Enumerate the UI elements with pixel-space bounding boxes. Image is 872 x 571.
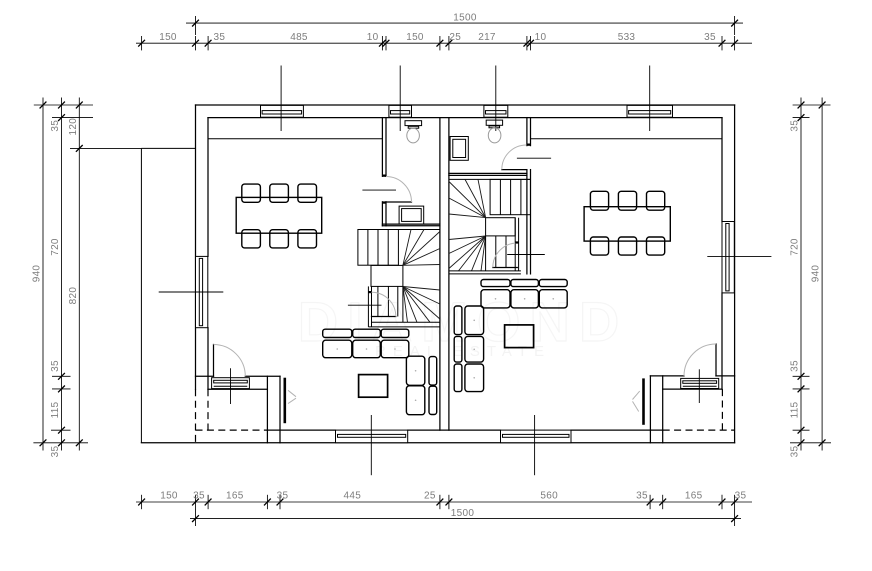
dimension top 1500 [186, 22, 743, 24]
door swing right vestibule [684, 344, 716, 376]
coffee table left [359, 375, 388, 398]
interior ceiling line left [208, 138, 382, 140]
svg-text:35: 35 [50, 360, 61, 372]
window axis W8 [534, 415, 536, 475]
svg-text:150: 150 [160, 490, 178, 501]
interior ceiling line right [531, 138, 723, 140]
svg-text:35: 35 [214, 32, 226, 43]
stair right landing box [486, 218, 516, 236]
svg-text:115: 115 [790, 401, 801, 418]
dining table right [584, 207, 670, 241]
front door chevron left [288, 390, 296, 403]
stair right door jamb [515, 241, 518, 243]
svg-text:165: 165 [226, 490, 244, 501]
dimension right inner [800, 98, 802, 451]
sofa right unit [481, 280, 510, 287]
stair right door leaf [493, 267, 518, 269]
dimension bottom row [136, 501, 752, 503]
dining chairs right [590, 191, 608, 210]
front door leaf right [642, 378, 645, 424]
svg-text:10: 10 [535, 32, 547, 43]
svg-text:940: 940 [32, 265, 43, 283]
door leaf right vestibule [715, 344, 717, 376]
stair left landing box [371, 265, 403, 286]
svg-text:485: 485 [290, 32, 308, 43]
outer wall left [195, 105, 197, 389]
svg-text:217: 217 [478, 32, 496, 43]
window axis W2 [399, 66, 401, 132]
door jamb mark right bathroom [527, 144, 531, 146]
entry counter right [681, 378, 719, 388]
svg-text:940: 940 [811, 265, 822, 283]
dimension right 940 [821, 98, 823, 451]
front door chevron right [633, 391, 640, 411]
svg-text:35: 35 [636, 490, 648, 501]
dimension left 940 [42, 98, 44, 451]
svg-text:720: 720 [790, 238, 801, 256]
stair left door leaf [372, 316, 396, 318]
dining chairs left [242, 184, 261, 202]
extension lines left [34, 104, 93, 106]
stair left upper winders [403, 230, 411, 266]
stair left lower winders [403, 287, 440, 291]
door swing right bathroom [502, 145, 527, 170]
toilet right [486, 120, 502, 125]
window axis W6 [707, 256, 771, 258]
window W3 top wall [484, 105, 508, 117]
window W1 top wall [261, 105, 304, 117]
extension lines right [793, 104, 831, 106]
stair right door swing [493, 243, 518, 268]
dimension left middle [61, 98, 63, 451]
stair right upper winders [478, 179, 486, 217]
svg-text:115: 115 [50, 401, 61, 418]
door jamb marks left bathroom [382, 175, 386, 177]
window axis W5 [159, 291, 224, 293]
sofa left unit [323, 329, 352, 337]
svg-text:560: 560 [540, 490, 558, 501]
window axis W3 [495, 66, 497, 132]
entry counter left [212, 378, 250, 389]
door axis right stair [507, 254, 545, 256]
stair left door swing [372, 292, 396, 316]
svg-text:720: 720 [50, 238, 61, 256]
door leaf right bathroom [502, 169, 527, 171]
window axis W7 [370, 415, 372, 475]
washbasin left bathroom [399, 206, 424, 224]
window W6 right wall [722, 222, 734, 293]
svg-text:1500: 1500 [453, 13, 477, 24]
stair left door jamb [368, 291, 371, 293]
front door leaf left [283, 378, 286, 424]
door axis right bathroom [517, 157, 551, 159]
svg-text:150: 150 [406, 32, 424, 43]
svg-text:35: 35 [50, 120, 61, 132]
svg-text:1500: 1500 [451, 508, 475, 519]
svg-text:820: 820 [68, 287, 79, 305]
outer wall top [196, 104, 735, 106]
window axis W1 [280, 66, 282, 132]
dimension top row [136, 42, 752, 44]
svg-text:35: 35 [790, 120, 801, 132]
door swing left bathroom [386, 177, 412, 203]
door axis left bathroom [362, 189, 396, 191]
party wall [439, 118, 441, 431]
window W8 bottom wall [501, 430, 572, 443]
stair right lower run [514, 218, 516, 271]
dimension bottom 1500 [190, 518, 741, 520]
dining table left [236, 197, 322, 233]
svg-text:25: 25 [424, 490, 436, 501]
door swing left vestibule [214, 345, 246, 377]
svg-text:35: 35 [790, 360, 801, 372]
svg-text:35: 35 [277, 490, 289, 501]
counter axis right [698, 369, 700, 403]
svg-text:35: 35 [704, 32, 716, 43]
svg-text:533: 533 [618, 32, 636, 43]
outer wall right [734, 105, 736, 443]
door axis left stair [348, 304, 382, 306]
svg-text:150: 150 [159, 32, 177, 43]
bathroom wall left unit [381, 118, 383, 177]
counter axis left [230, 368, 232, 404]
stair right upper run [449, 178, 531, 180]
svg-text:120: 120 [68, 118, 79, 136]
window axis W4 [649, 66, 651, 132]
window W5 left wall [196, 256, 208, 327]
door leaf left bathroom [386, 201, 412, 203]
stair left upper run [358, 230, 399, 266]
door leaf left vestibule [213, 345, 215, 377]
dimension left inner [78, 98, 80, 451]
svg-text:35: 35 [735, 490, 747, 501]
coffee table right [505, 325, 534, 348]
svg-text:35: 35 [50, 446, 61, 458]
svg-text:25: 25 [449, 32, 461, 43]
vestibule wall right unit [649, 376, 651, 443]
stair right lower winders [449, 236, 486, 240]
window W7 bottom wall [336, 430, 408, 443]
svg-text:445: 445 [344, 490, 362, 501]
window W2 top wall [389, 105, 412, 117]
svg-text:35: 35 [193, 490, 205, 501]
window W4 top wall [627, 105, 673, 117]
svg-text:35: 35 [790, 446, 801, 458]
svg-text:165: 165 [685, 490, 703, 501]
bathroom wall right unit [526, 118, 528, 146]
svg-text:10: 10 [367, 32, 379, 43]
washbasin right bathroom [450, 137, 468, 161]
toilet left [405, 121, 422, 126]
vestibule wall left unit [266, 376, 268, 443]
outer wall bottom [141, 442, 734, 444]
stair left lower run [367, 286, 369, 327]
terrace outline [140, 148, 142, 442]
